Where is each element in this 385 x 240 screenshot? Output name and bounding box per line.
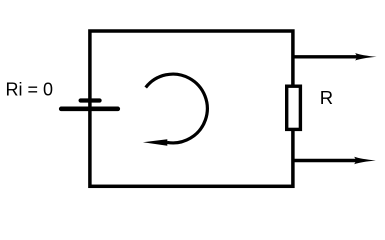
wire bottom output lead [293, 159, 357, 162]
current direction arrowhead [143, 139, 167, 146]
voltage source V (battery) short plate [81, 98, 100, 102]
wire main circuit loop [90, 31, 293, 186]
resistor R body [287, 86, 301, 129]
wire top output lead [293, 55, 358, 58]
svg-text:R: R [320, 87, 333, 108]
voltage source V (battery) long plate [61, 107, 118, 112]
terminal arrowhead top [355, 53, 376, 60]
current direction arc (clockwise loop) [146, 74, 208, 143]
terminal arrowhead bottom [354, 157, 376, 164]
svg-text:Ri = 0: Ri = 0 [6, 80, 54, 100]
